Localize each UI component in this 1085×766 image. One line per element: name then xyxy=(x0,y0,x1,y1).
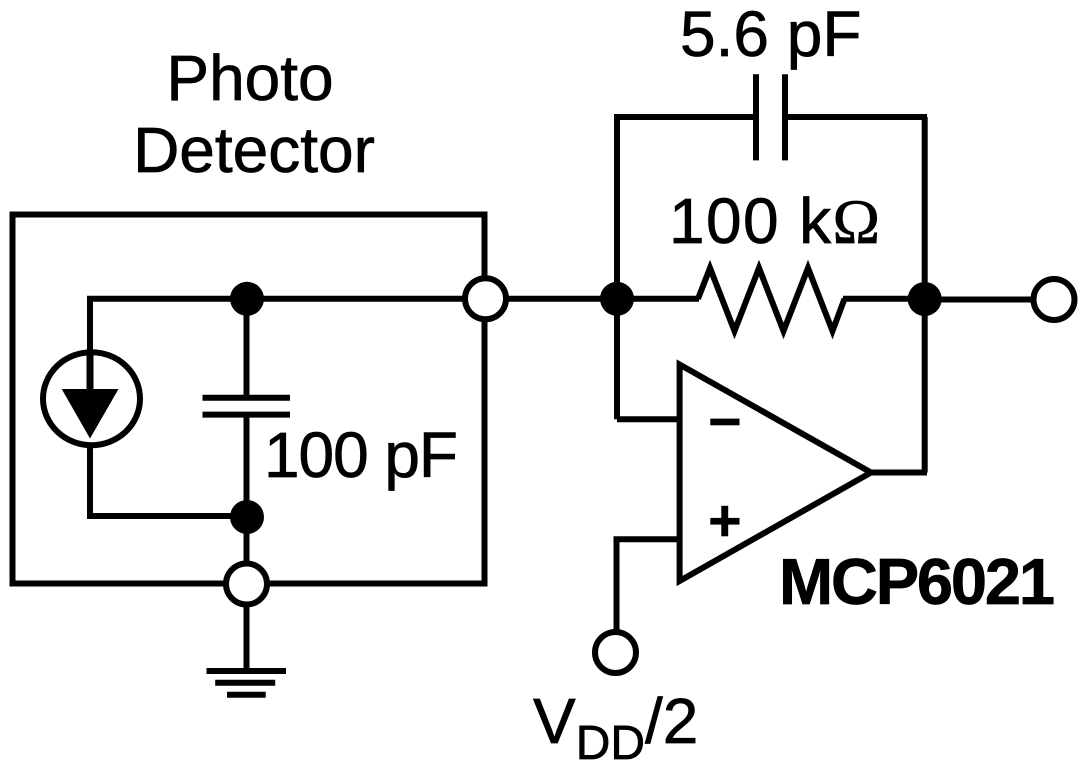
terminal: detector ground (open circle on box bottom edge) xyxy=(226,564,267,605)
wire: inverting input horizontal xyxy=(617,416,680,422)
svg-text:5.6 pF: 5.6 pF xyxy=(680,0,861,70)
terminal: VDD/2 (open circle) xyxy=(595,632,636,673)
wire: feedback top right segment xyxy=(788,114,927,120)
node: output junction xyxy=(908,282,942,316)
wire: ground terminal to ground symbol xyxy=(244,604,250,671)
wire: feedback top left segment xyxy=(614,114,753,120)
capacitor C 100 pF xyxy=(203,299,291,517)
node: cap top junction xyxy=(230,282,264,316)
op-amp U1 xyxy=(680,365,871,582)
wire: input terminal to inverting node xyxy=(506,296,618,302)
resistor RF 100 kOhm xyxy=(698,268,845,331)
svg-text:Photo: Photo xyxy=(166,42,333,114)
svg-text:Detector: Detector xyxy=(133,114,375,186)
ground xyxy=(207,671,287,695)
current source (photodiode) xyxy=(43,352,140,445)
wire: cap top node to input terminal xyxy=(247,296,466,302)
photodetector box xyxy=(13,215,485,584)
wire: op-amp output to output node xyxy=(871,470,927,476)
wire: feedback loop right vertical xyxy=(922,117,928,473)
capacitor CF 5.6 pF xyxy=(756,74,785,160)
node: inverting input junction xyxy=(600,282,634,316)
svg-text:100 kΩ: 100 kΩ xyxy=(669,185,880,257)
wire: feedback loop left vertical xyxy=(614,117,620,419)
svg-text:100 pF: 100 pF xyxy=(264,419,458,491)
node: cap bottom junction xyxy=(230,500,264,534)
terminal: detector output (open circle on box right edge) xyxy=(465,278,506,319)
wire: photodiode top to cap top node xyxy=(90,299,247,352)
wire: resistor to output node xyxy=(843,296,925,302)
wire: non-inverting input horizontal xyxy=(617,539,681,632)
svg-text:MCP6021: MCP6021 xyxy=(779,545,1055,618)
terminal: output (open circle) xyxy=(1034,279,1075,320)
wire: inverting node to resistor xyxy=(617,296,699,302)
wire: photodiode bottom to cap bottom node xyxy=(90,446,247,516)
wire: output node to output terminal xyxy=(925,297,1034,303)
wire: cap bottom node to ground terminal xyxy=(244,517,250,564)
